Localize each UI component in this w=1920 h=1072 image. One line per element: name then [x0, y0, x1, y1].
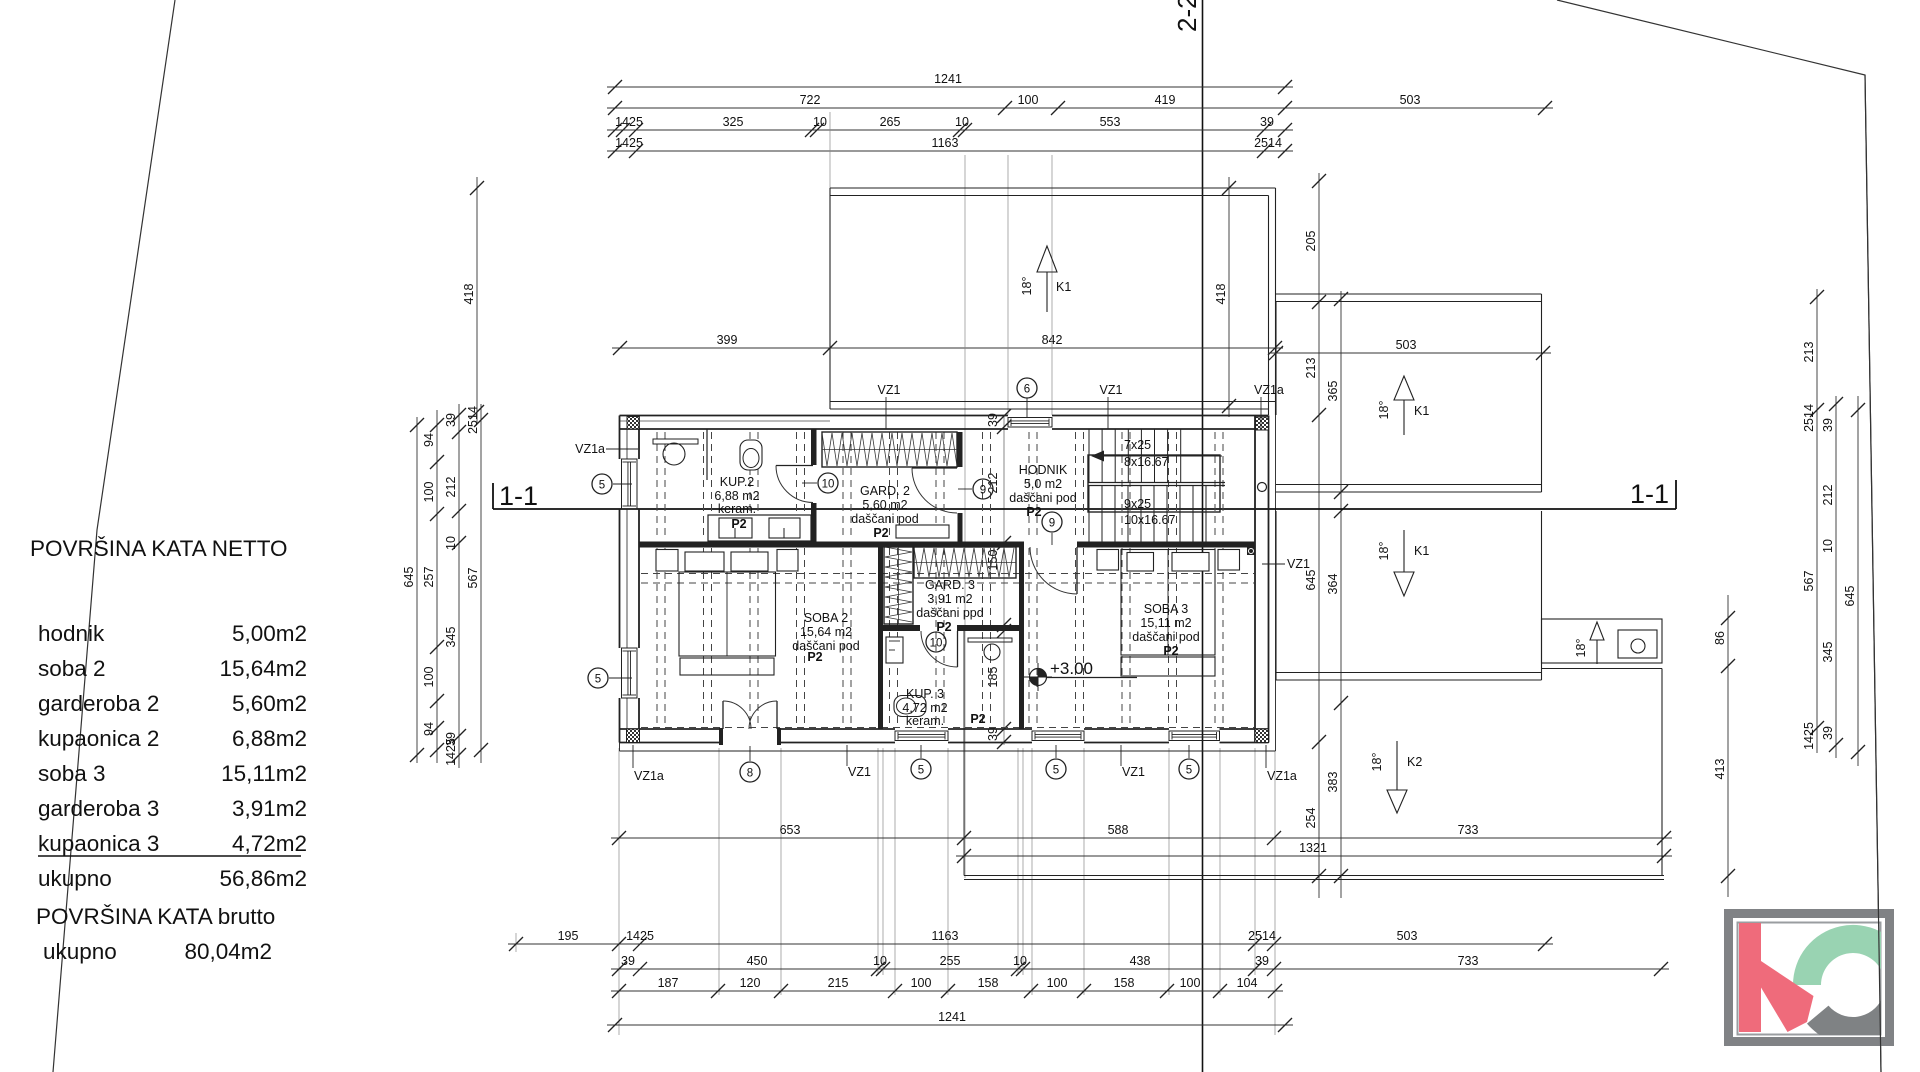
svg-text:100: 100 [911, 976, 932, 990]
KUP.2 shelf [653, 439, 698, 444]
svg-text:18°: 18° [1377, 542, 1391, 561]
svg-text:5,00m2: 5,00m2 [232, 621, 307, 646]
svg-text:1425: 1425 [615, 136, 643, 150]
svg-text:6: 6 [1024, 383, 1030, 395]
dimension line left 94/100/257/345/100/94 [422, 410, 444, 763]
label VZ1a top [1254, 383, 1284, 429]
wardrobe hatch GARD.3 vertical [884, 547, 913, 624]
svg-text:VZ1a: VZ1a [1254, 383, 1284, 397]
svg-text:645: 645 [402, 567, 416, 588]
svg-text:567: 567 [1802, 571, 1816, 592]
svg-text:212: 212 [444, 477, 458, 498]
left property boundary line [53, 0, 175, 1072]
svg-text:212: 212 [1821, 485, 1835, 506]
label VZ1a bottom right [1266, 745, 1297, 783]
svg-text:733: 733 [1458, 954, 1479, 968]
svg-text:94: 94 [422, 433, 436, 447]
room label SOBA 2 [792, 611, 859, 664]
exterior wall top [620, 416, 1269, 430]
svg-text:5,60m2: 5,60m2 [232, 691, 307, 716]
label VZ1a top-left outside [575, 442, 638, 456]
svg-text:3,91 m2: 3,91 m2 [927, 592, 972, 606]
svg-text:257: 257 [422, 567, 436, 588]
position bubble 5 bottom 1 [911, 745, 931, 779]
room label SOBA 3 [1132, 602, 1199, 658]
svg-text:325: 325 [723, 115, 744, 129]
svg-text:567: 567 [466, 568, 480, 589]
wardrobe hatch GARD.2 [822, 432, 957, 467]
svg-text:9: 9 [1049, 517, 1055, 529]
svg-text:39: 39 [1821, 418, 1835, 432]
svg-text:hodnik: hodnik [38, 621, 105, 646]
label VZ1 top left [878, 383, 901, 429]
svg-text:503: 503 [1396, 338, 1417, 352]
svg-text:39: 39 [1821, 726, 1835, 740]
interior wall SOBA2 / GARD.3-KUP.3 [878, 548, 883, 730]
roof slope arrow K1 upper [1020, 246, 1071, 312]
position bubble 6 top [1017, 378, 1037, 417]
svg-text:5: 5 [599, 479, 605, 491]
svg-text:365: 365 [1326, 381, 1340, 402]
position bubble 5 left lower [588, 668, 632, 688]
svg-text:SOBA 3: SOBA 3 [1144, 602, 1189, 616]
SOBA3 wall outlet [1247, 547, 1255, 555]
svg-text:VZ1: VZ1 [1100, 383, 1123, 397]
svg-text:8: 8 [747, 767, 753, 779]
svg-text:94: 94 [422, 722, 436, 736]
dashed joist grid horizontal lines [641, 574, 1254, 728]
svg-text:10: 10 [930, 637, 943, 649]
svg-text:254: 254 [1304, 808, 1318, 829]
svg-text:garderoba 3: garderoba 3 [38, 796, 159, 821]
area row garderoba 2 [38, 691, 307, 716]
roof outline K1 right upper [1276, 294, 1542, 492]
svg-text:kupaonica 2: kupaonica 2 [38, 726, 159, 751]
svg-text:5: 5 [1186, 764, 1192, 776]
svg-text:garderoba 2: garderoba 2 [38, 691, 159, 716]
logo KC bottom right [1724, 909, 1907, 1046]
svg-text:KUP.2: KUP.2 [720, 475, 755, 489]
area row garderoba 3 [38, 796, 307, 821]
dimension line 1321 [956, 841, 1672, 863]
stairwell outline [1088, 455, 1220, 512]
svg-text:18°: 18° [1377, 401, 1391, 420]
svg-text:1321: 1321 [1299, 841, 1327, 855]
dimension line left 645 [402, 417, 424, 763]
svg-text:8x16.67: 8x16.67 [1124, 455, 1169, 469]
exterior wall bottom [620, 729, 1269, 743]
window left wall lower [622, 648, 638, 698]
svg-text:keram.: keram. [906, 714, 944, 728]
svg-text:1425: 1425 [1802, 722, 1816, 750]
dimension line 722/100/419/503 [607, 93, 1553, 115]
roof outline K1 right lower [1276, 511, 1542, 680]
svg-text:VZ1: VZ1 [848, 765, 871, 779]
svg-text:15,64 m2: 15,64 m2 [800, 625, 852, 639]
position bubble 10 KUP.3 [926, 632, 946, 652]
svg-text:ukupno: ukupno [43, 939, 117, 964]
svg-text:10: 10 [813, 115, 827, 129]
svg-text:P2: P2 [970, 712, 985, 726]
svg-text:+3.00: +3.00 [1050, 659, 1093, 678]
area row soba 3 [38, 761, 307, 786]
KUP.3 cabinet [886, 637, 903, 663]
position bubble 10 KUP.2 [802, 473, 838, 493]
svg-text:K1: K1 [1414, 544, 1429, 558]
svg-text:653: 653 [780, 823, 801, 837]
dashed joist grid vertical pairs [657, 432, 1223, 727]
dimension line left 39/212/10/345/39/1425 [444, 404, 466, 768]
svg-text:P2: P2 [807, 650, 822, 664]
svg-text:VZ1a: VZ1a [575, 442, 605, 456]
underline kupaonica 3 row [38, 855, 301, 857]
dimension line 503 right roof [1268, 338, 1551, 360]
KUP.3 toilet [894, 696, 926, 717]
svg-text:345: 345 [444, 627, 458, 648]
svg-text:265: 265 [880, 115, 901, 129]
svg-text:722: 722 [800, 93, 821, 107]
svg-text:364: 364 [1326, 574, 1340, 595]
svg-text:6,88 m2: 6,88 m2 [714, 489, 759, 503]
svg-text:1425: 1425 [444, 738, 458, 766]
area row ukupno brutto [43, 939, 272, 964]
svg-text:15,11 m2: 15,11 m2 [1140, 616, 1191, 630]
extension lines vertical (dim references) [516, 112, 1275, 1035]
window left wall upper [622, 459, 638, 509]
position bubble 9 GARD.2 [958, 479, 993, 499]
svg-text:588: 588 [1108, 823, 1129, 837]
svg-text:1241: 1241 [938, 1010, 966, 1024]
svg-text:86: 86 [1713, 631, 1727, 645]
interior wall GARD.3 / KUP.3 [883, 625, 920, 631]
svg-text:15,11m2: 15,11m2 [221, 761, 307, 786]
svg-text:80,04m2: 80,04m2 [184, 939, 272, 964]
svg-text:39: 39 [621, 954, 635, 968]
svg-text:P2: P2 [1163, 644, 1178, 658]
dimension column 39/212/150/185/39 near hodnik [986, 409, 1011, 749]
roof slope arrow K2 (down) [1370, 741, 1422, 813]
svg-text:1-1: 1-1 [1630, 479, 1669, 509]
svg-text:1163: 1163 [932, 136, 959, 150]
svg-text:10: 10 [822, 478, 835, 490]
room label HODNIK [1009, 463, 1076, 519]
section line 2-2 vertical [1172, 0, 1203, 1072]
svg-text:GARD. 3: GARD. 3 [925, 578, 975, 592]
svg-text:255: 255 [940, 954, 961, 968]
dimension line 1425/1163/2514 [607, 136, 1293, 158]
door KUP.2 (10) [776, 466, 813, 503]
interior wall KUP.2 / GARD.2 [811, 429, 817, 465]
svg-text:450: 450 [747, 954, 768, 968]
svg-text:2514: 2514 [1802, 404, 1816, 432]
label VZ1a bottom left [633, 745, 664, 783]
svg-text:18°: 18° [1370, 753, 1384, 772]
svg-text:10: 10 [955, 115, 969, 129]
label VZ1 top right [1100, 383, 1123, 429]
dimension line right 205/213/645/254 [1304, 173, 1326, 898]
eave outline around plan [619, 409, 1276, 751]
svg-text:VZ1: VZ1 [878, 383, 901, 397]
svg-text:5: 5 [1053, 764, 1059, 776]
svg-text:104: 104 [1237, 976, 1258, 990]
svg-text:P2: P2 [873, 526, 888, 540]
svg-text:10x16.67: 10x16.67 [1124, 513, 1175, 527]
section line 1-1 [493, 479, 1676, 511]
window bottom 1 [895, 731, 948, 741]
stair direction arrow [1091, 451, 1222, 462]
interior wall GARD.2 / HODNIK [958, 432, 963, 467]
roof slope arrow K1 right upper [1377, 376, 1429, 435]
wardrobe hatch GARD.3 horizontal [914, 547, 1016, 578]
stair lower flight treads 9x25 [1089, 486, 1206, 542]
svg-text:daščani pod: daščani pod [851, 512, 918, 526]
svg-text:39: 39 [1260, 115, 1274, 129]
dimension line 195/1425/1163/2514/503 [508, 929, 1553, 951]
stair upper flight treads 7x25 [1089, 429, 1181, 482]
svg-text:383: 383 [1326, 772, 1340, 793]
svg-text:HODNIK: HODNIK [1019, 463, 1068, 477]
svg-text:100: 100 [422, 667, 436, 688]
svg-text:VZ1a: VZ1a [1267, 769, 1297, 783]
svg-text:345: 345 [1821, 642, 1835, 663]
svg-text:daščani pod: daščani pod [1009, 491, 1076, 505]
dimension line right 86/413 [1713, 595, 1735, 897]
svg-text:P2: P2 [731, 517, 746, 531]
svg-text:9x25: 9x25 [1124, 497, 1151, 511]
svg-text:POVRŠINA KATA NETTO: POVRŠINA KATA NETTO [30, 536, 288, 561]
area row kupaonica 3 [38, 831, 307, 856]
svg-text:daščani pod: daščani pod [1132, 630, 1199, 644]
svg-text:39: 39 [1255, 954, 1269, 968]
exterior wall left [620, 416, 640, 743]
svg-text:553: 553 [1100, 115, 1121, 129]
area row soba 2 [38, 656, 307, 681]
window bottom 2 [1032, 731, 1084, 741]
svg-text:5,0 m2: 5,0 m2 [1024, 477, 1062, 491]
corner hatch bottom-right [1255, 729, 1269, 743]
room label GARD. 3 [916, 578, 983, 634]
svg-text:733: 733 [1458, 823, 1479, 837]
svg-text:5: 5 [595, 673, 601, 685]
interior wall horizontal mid (H1) [639, 542, 1024, 548]
KUP.2 partition line [706, 429, 708, 480]
dimension line far right 39/212/10/645/345/39 [1821, 396, 1843, 758]
svg-text:4,72m2: 4,72m2 [232, 831, 307, 856]
svg-text:SOBA 2: SOBA 2 [804, 611, 849, 625]
dimension line 187/120/215/100/158/100/158/100/104 [611, 976, 1283, 998]
GARD.2 dresser P2 box [896, 525, 949, 538]
position bubble 9 HODNIK [1042, 512, 1062, 545]
roof dormer / chimney box right [1542, 619, 1663, 669]
position bubble 5 bottom 2 [1046, 745, 1066, 779]
svg-text:645: 645 [1304, 570, 1318, 591]
svg-text:1425: 1425 [626, 929, 654, 943]
KUP.2 toilet [740, 440, 762, 470]
KUP.3 shelf [968, 638, 1012, 642]
svg-text:soba 3: soba 3 [38, 761, 106, 786]
dimension line 399/842 [612, 333, 1283, 355]
position bubble 8 [740, 746, 760, 782]
svg-text:P2: P2 [1026, 505, 1041, 519]
svg-text:213: 213 [1802, 342, 1816, 363]
svg-text:K2: K2 [1407, 755, 1422, 769]
label VZ1 right (soba3) [1262, 557, 1310, 571]
svg-text:195: 195 [558, 929, 579, 943]
roof outline K1 upper (above plan) [830, 188, 1276, 415]
svg-text:ukupno: ukupno [38, 866, 112, 891]
svg-text:2514: 2514 [1248, 929, 1276, 943]
dimension line 1241 top [607, 72, 1293, 94]
window bottom 3 [1169, 731, 1220, 741]
svg-text:213: 213 [1304, 358, 1318, 379]
area row hodnik [38, 621, 307, 646]
corner hatch top-right [1256, 417, 1269, 430]
wall ring right (hodnik vent) [1258, 483, 1267, 492]
svg-text:100: 100 [1018, 93, 1039, 107]
SOBA2 bed [656, 550, 798, 676]
svg-text:503: 503 [1397, 929, 1418, 943]
door HODNIK-SOBA3 (9) [1030, 547, 1077, 594]
svg-text:keram.: keram. [718, 502, 756, 516]
svg-text:10: 10 [1821, 539, 1835, 553]
svg-text:KUP. 3: KUP. 3 [906, 687, 944, 701]
roof outline K2 lower area [964, 626, 1664, 880]
area row kupaonica 2 [38, 726, 307, 751]
corner hatch bottom-left [627, 729, 640, 743]
svg-text:1241: 1241 [934, 72, 962, 86]
svg-text:daščani ppd: daščani ppd [916, 606, 983, 620]
svg-text:185: 185 [986, 667, 1000, 688]
dimension line 1425/325/10/265/10/553/39 [607, 115, 1293, 137]
label VZ1 bottom 2 [1121, 745, 1145, 779]
exterior wall right [1254, 416, 1256, 743]
svg-text:419: 419 [1155, 93, 1176, 107]
balcony double door (8) [723, 701, 777, 729]
dimension line right 365/364/383 [1326, 291, 1348, 898]
dimension line right 418 vertical [1214, 177, 1236, 417]
svg-text:kupaonica 3: kupaonica 3 [38, 831, 159, 856]
svg-text:39: 39 [444, 413, 458, 427]
svg-text:K1: K1 [1414, 404, 1429, 418]
svg-text:7x25: 7x25 [1124, 438, 1151, 452]
SOBA3 bed [1097, 550, 1240, 677]
corner hatch top-left [627, 417, 639, 430]
svg-text:3,91m2: 3,91m2 [232, 796, 307, 821]
svg-text:1163: 1163 [932, 929, 959, 943]
svg-text:5,60 m2: 5,60 m2 [862, 498, 907, 512]
KUP.2 washbasin [663, 443, 685, 465]
svg-text:418: 418 [462, 284, 476, 305]
dimension line far right 645 [1843, 396, 1865, 766]
svg-text:413: 413 [1713, 759, 1727, 780]
svg-text:VZ1: VZ1 [1122, 765, 1145, 779]
svg-text:POVRŠINA KATA brutto: POVRŠINA KATA brutto [36, 904, 275, 929]
level mark +3.00 [1024, 659, 1137, 691]
svg-text:100: 100 [422, 482, 436, 503]
svg-text:205: 205 [1304, 231, 1318, 252]
svg-text:418: 418 [1214, 284, 1228, 305]
svg-text:10: 10 [1013, 954, 1027, 968]
svg-text:VZ1: VZ1 [1287, 557, 1310, 571]
svg-text:1425: 1425 [615, 115, 643, 129]
stair landing handrail [1088, 483, 1225, 486]
svg-text:1-1: 1-1 [499, 481, 538, 511]
svg-text:18°: 18° [1574, 639, 1588, 658]
right property boundary line (over logo) [1865, 75, 1881, 1072]
balcony door jambs [719, 728, 723, 745]
room label KUP.2 [714, 475, 759, 531]
room label KUP. 3 [902, 687, 985, 728]
area row ukupno [38, 866, 307, 891]
svg-text:10: 10 [873, 954, 887, 968]
roof slope arrow K1 right lower (down) [1377, 530, 1429, 596]
svg-text:158: 158 [1114, 976, 1135, 990]
svg-text:daščani pod: daščani pod [792, 639, 859, 653]
room label GARD. 2 [851, 484, 918, 540]
KUP.2 vanity with two sinks [708, 515, 811, 541]
svg-text:503: 503 [1400, 93, 1421, 107]
svg-text:100: 100 [1047, 976, 1068, 990]
window 6 top wall [1008, 418, 1052, 428]
door GARD.2 (9) [912, 468, 957, 513]
svg-text:399: 399 [717, 333, 738, 347]
dimension line left 567/2514 [466, 404, 488, 763]
svg-text:18°: 18° [1020, 277, 1034, 296]
dimension line 39/450/10/255/10/438/39/733 [611, 954, 1669, 976]
svg-text:5: 5 [918, 764, 924, 776]
svg-text:56,86m2: 56,86m2 [219, 866, 307, 891]
svg-text:215: 215 [828, 976, 849, 990]
KUP.3 washbasin [984, 644, 1000, 660]
label VZ1 bottom 1 [847, 745, 871, 779]
right property boundary line [1557, 0, 1881, 1072]
svg-text:100: 100 [1180, 976, 1201, 990]
svg-text:soba 2: soba 2 [38, 656, 106, 681]
svg-text:158: 158 [978, 976, 999, 990]
svg-text:GARD. 2: GARD. 2 [860, 484, 910, 498]
svg-text:15,64m2: 15,64m2 [219, 656, 307, 681]
door GARD.3 (10) [921, 631, 958, 667]
svg-text:187: 187 [658, 976, 679, 990]
dimension line 1241 bottom [607, 1010, 1293, 1032]
dimension line left 418 vertical [462, 177, 484, 423]
svg-text:6,88m2: 6,88m2 [232, 726, 307, 751]
svg-text:10: 10 [444, 536, 458, 550]
interior wall KUP.3 / SOBA3 [1019, 548, 1024, 730]
position bubble 5 bottom 3 [1179, 745, 1199, 779]
svg-text:2514: 2514 [1254, 136, 1282, 150]
dimension line far right 213/2514/567/1425 [1802, 289, 1824, 753]
svg-text:2-2: 2-2 [1172, 0, 1202, 32]
dimension line 653/588/733 [611, 823, 1672, 845]
position bubble 5 left upper [592, 474, 632, 494]
svg-text:438: 438 [1130, 954, 1151, 968]
svg-text:VZ1a: VZ1a [634, 769, 664, 783]
svg-text:9: 9 [980, 484, 986, 496]
svg-text:4,72 m2: 4,72 m2 [902, 701, 947, 715]
svg-text:K1: K1 [1056, 280, 1071, 294]
svg-text:645: 645 [1843, 586, 1857, 607]
svg-text:120: 120 [740, 976, 761, 990]
